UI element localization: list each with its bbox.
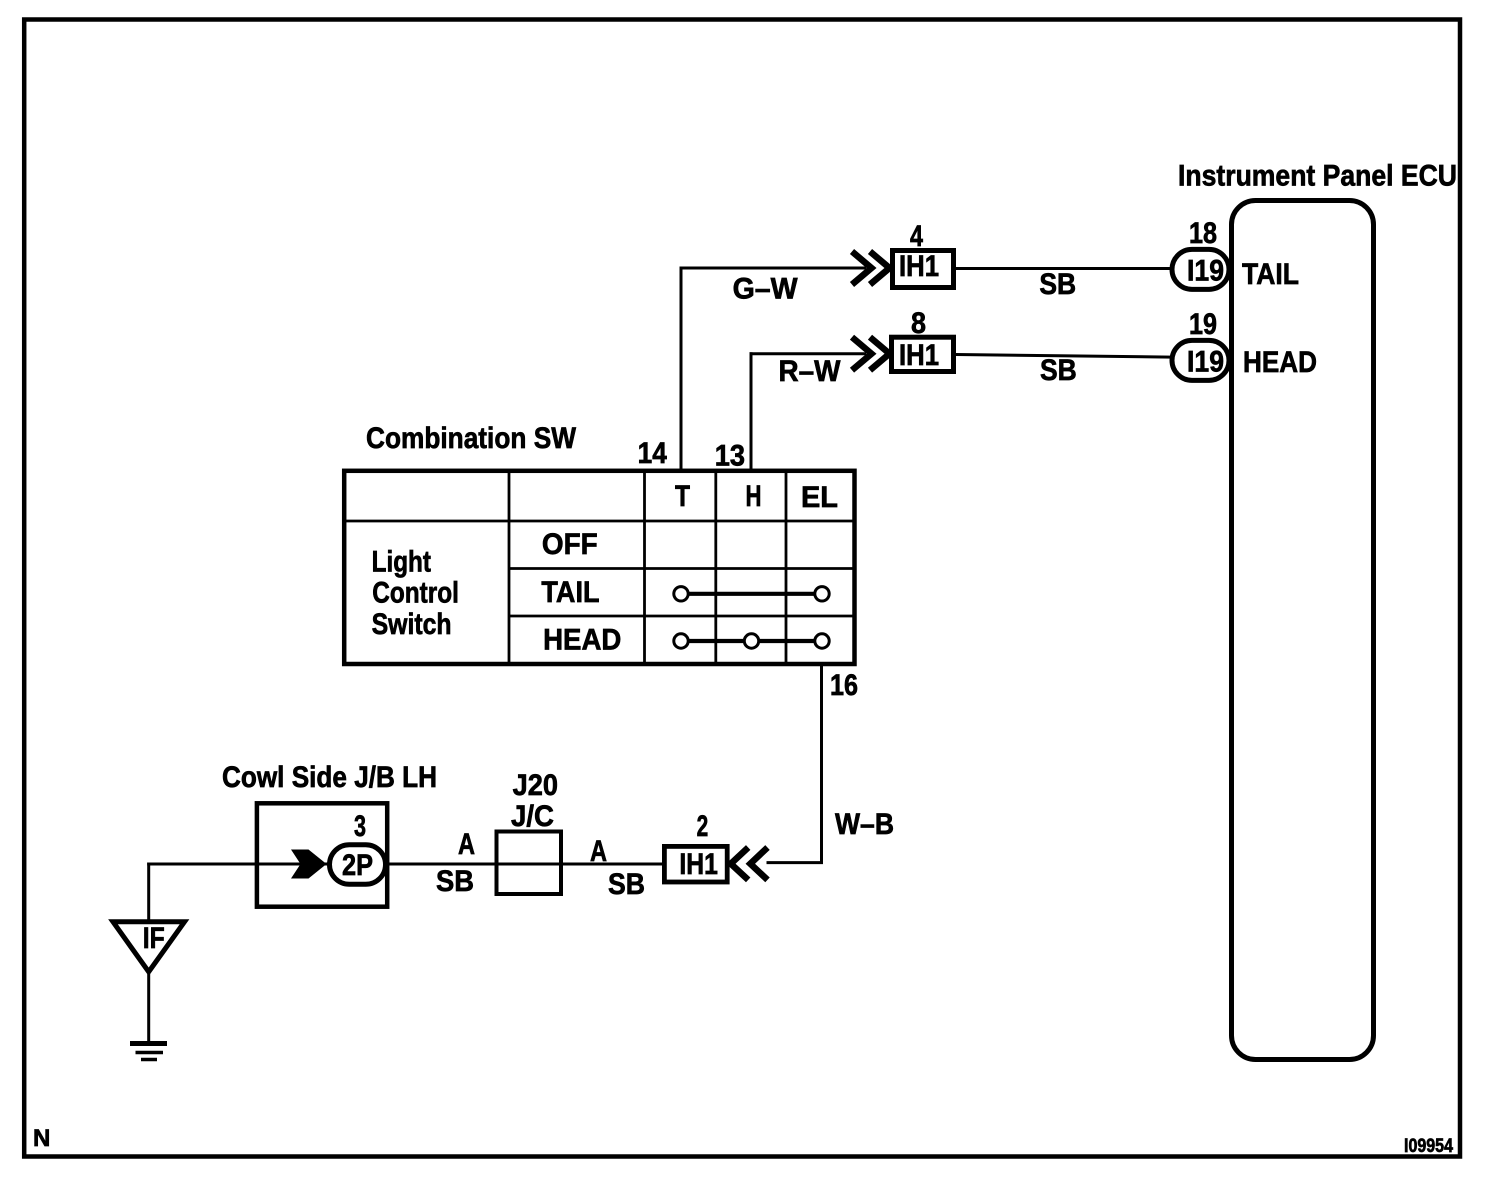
wire SB from splice IH1 pin 8 to ECU I19 pin 19	[956, 355, 1200, 358]
wire W-B horizontal into splice IH1 pin 2	[767, 861, 824, 864]
svg-text:SB: SB	[1040, 354, 1077, 387]
svg-text:19: 19	[1189, 308, 1217, 341]
arrow chevrons out of splice IH1 pin 2	[731, 848, 768, 880]
svg-text:I19: I19	[1187, 255, 1224, 288]
table row label Light Control Switch	[372, 546, 459, 641]
connector I19 pin 18	[1172, 249, 1229, 289]
svg-text:TAIL: TAIL	[1242, 258, 1299, 291]
svg-text:Control: Control	[372, 576, 459, 609]
arrow chevrons into splice IH1 pin 4	[852, 252, 890, 285]
wire G-W horizontal from node 14 to splice IH1 pin 4	[680, 267, 867, 270]
svg-text:IH1: IH1	[899, 339, 939, 372]
svg-text:13: 13	[715, 440, 745, 473]
svg-text:T: T	[675, 480, 690, 513]
svg-text:SB: SB	[436, 865, 474, 898]
junction connector J20 J/C	[497, 769, 562, 894]
switch contact row HEAD	[674, 634, 829, 648]
svg-text:A: A	[590, 835, 607, 868]
ground	[130, 1044, 167, 1060]
svg-text:3: 3	[354, 810, 366, 843]
combination switch table frame	[344, 470, 856, 664]
splice IH1 pin 2	[664, 846, 727, 882]
svg-text:J/C: J/C	[511, 800, 554, 833]
splice IH1 pin 8	[892, 337, 954, 372]
wire R-W horizontal from node 13 to splice IH1 pin 8	[750, 352, 867, 355]
svg-text:TAIL: TAIL	[541, 576, 599, 609]
svg-text:HEAD: HEAD	[543, 623, 621, 656]
svg-text:EL: EL	[801, 481, 838, 514]
svg-text:IF: IF	[143, 922, 165, 955]
svg-text:Combination SW: Combination SW	[366, 422, 577, 455]
wire SB from splice IH1 pin 4 to ECU I19 pin 18	[956, 267, 1200, 270]
wire down to IF connector	[147, 863, 150, 921]
wire SB main horizontal through cowl side J/B and J20	[147, 863, 663, 866]
svg-text:Switch: Switch	[372, 608, 452, 641]
svg-text:I19: I19	[1187, 346, 1224, 379]
svg-text:SB: SB	[608, 868, 645, 901]
svg-text:Instrument Panel ECU: Instrument Panel ECU	[1178, 160, 1457, 193]
arrow chevrons into splice IH1 pin 8	[852, 337, 890, 370]
cowl side J/B LH box	[257, 803, 387, 906]
splice IH1 pin 4	[893, 250, 954, 288]
svg-text:G–W: G–W	[733, 273, 799, 306]
wire W-B vertical from combination switch pin 16	[820, 664, 823, 863]
connector 2P pin 3	[330, 845, 386, 885]
svg-text:IH1: IH1	[899, 250, 939, 283]
wire node 13 vertical into combination switch H	[750, 352, 753, 471]
svg-text:Cowl Side J/B LH: Cowl Side J/B LH	[222, 761, 437, 794]
svg-text:IH1: IH1	[679, 848, 718, 881]
svg-text:SB: SB	[1039, 268, 1076, 301]
instrument panel ECU block	[1232, 201, 1374, 1060]
connector IF triangle	[113, 922, 185, 972]
switch contact row TAIL	[674, 587, 829, 601]
wire IF connector to ground	[147, 974, 150, 1044]
svg-text:N: N	[33, 1125, 50, 1152]
svg-text:J20: J20	[513, 769, 558, 802]
svg-text:OFF: OFF	[542, 528, 598, 561]
svg-text:HEAD: HEAD	[1243, 346, 1317, 379]
svg-text:W–B: W–B	[835, 808, 894, 841]
svg-text:4: 4	[910, 220, 923, 253]
svg-text:14: 14	[638, 437, 667, 470]
svg-text:18: 18	[1189, 217, 1217, 250]
filled arrow inside cowl side J/B	[291, 850, 327, 879]
svg-text:A: A	[458, 828, 475, 861]
svg-text:8: 8	[911, 307, 926, 340]
connector I19 pin 19	[1172, 340, 1229, 380]
svg-text:Light: Light	[372, 546, 431, 579]
svg-text:R–W: R–W	[779, 355, 842, 388]
svg-text:2: 2	[697, 810, 709, 843]
svg-text:H: H	[746, 480, 762, 513]
svg-text:16: 16	[830, 669, 858, 702]
svg-text:I09954: I09954	[1404, 1135, 1453, 1157]
svg-text:2P: 2P	[342, 849, 373, 882]
wire node 14 vertical into combination switch T	[680, 267, 683, 472]
